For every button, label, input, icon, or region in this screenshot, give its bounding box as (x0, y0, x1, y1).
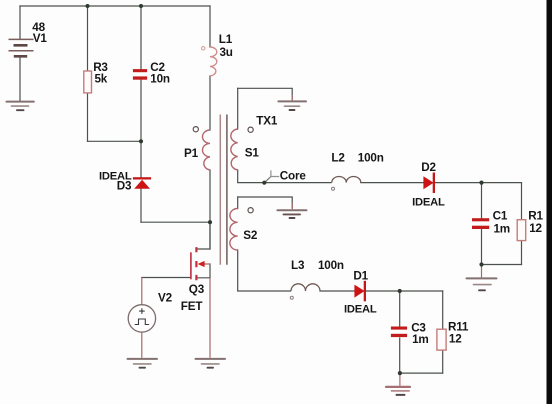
svg-text:L1: L1 (219, 33, 233, 46)
ground (Q3 source) (196, 359, 226, 368)
svg-text:100n: 100n (358, 152, 384, 165)
ground (C3 output) (386, 387, 410, 395)
svg-text:IDEAL: IDEAL (344, 304, 377, 316)
transformer TX1 core (219, 115, 221, 265)
svg-text:IDEAL: IDEAL (412, 197, 445, 209)
wire R3 top (87, 6, 89, 71)
node R3-C2-D3 (139, 139, 143, 143)
wire S2 top to ground (238, 197, 293, 208)
pin V2 top stub (141, 278, 143, 305)
ground (C1/R1 output) (467, 278, 497, 290)
svg-text:S1: S1 (245, 146, 260, 159)
pin dot P1 (193, 127, 198, 132)
wire R3-C2 bottom junction run (88, 140, 142, 142)
wire V2 gate run (142, 277, 191, 279)
svg-text:12: 12 (529, 222, 542, 235)
ground (S2 top) (277, 210, 306, 218)
wire S1 top vertical (237, 88, 239, 129)
diode D1 (354, 281, 366, 302)
node D1-C3 (398, 289, 402, 293)
svg-text:5k: 5k (95, 72, 108, 85)
ground (battery) (7, 102, 34, 111)
wire R3 bottom (87, 93, 89, 141)
wire S1 bottom (238, 170, 331, 183)
wire L3 to D1 (320, 290, 354, 292)
pin V2 bottom stub (141, 332, 143, 358)
wire R11 top (442, 291, 444, 329)
transistor Q3 FET (191, 247, 210, 280)
svg-text:TX1: TX1 (256, 115, 278, 128)
pin dot S1 (248, 127, 253, 132)
wire battery top (19, 6, 21, 39)
svg-text:C1: C1 (493, 210, 508, 223)
ground (V2) (128, 359, 158, 368)
svg-text:FET: FET (181, 300, 204, 313)
wire Q3 drain vertical (197, 222, 211, 249)
pin dot L1 (202, 47, 205, 50)
svg-text:Q3: Q3 (189, 283, 205, 296)
node Core tick (264, 170, 279, 182)
svg-text:V1: V1 (33, 32, 48, 45)
pin dot S2 (248, 208, 253, 213)
capacitor C1 (472, 218, 489, 229)
wire C2 top (140, 6, 142, 69)
svg-text:12: 12 (449, 332, 462, 345)
component pin stubs (reddish) (142, 95, 482, 386)
transformer winding P1 (202, 130, 210, 170)
ground (S1 top) (278, 101, 306, 110)
wire top rail (20, 5, 210, 7)
node C1-gnd (479, 262, 483, 266)
svg-text:S2: S2 (243, 229, 258, 242)
diode D2 (423, 173, 435, 194)
source V2 (128, 305, 155, 332)
node Core (262, 181, 266, 185)
wire Q3 source bend (197, 264, 211, 278)
svg-text:1m: 1m (412, 333, 429, 346)
transformer winding S2 (230, 209, 238, 251)
wire R11 bottom (442, 350, 444, 373)
node D2-C1 (479, 181, 483, 185)
wire S1 top to ground (238, 88, 293, 99)
svg-text:L3: L3 (291, 259, 305, 272)
pin C3 ground stub (399, 373, 401, 386)
capacitor C3 (391, 327, 407, 338)
svg-text:10n: 10n (150, 72, 170, 85)
pin dot L3 (290, 296, 293, 299)
wire R1 top (521, 183, 523, 220)
wire C3-R11 bottom run (400, 372, 443, 374)
wire C3 top (399, 291, 401, 327)
wire L1 top (209, 6, 211, 47)
wire C3 bottom (399, 338, 401, 373)
wire L1 to P1 (209, 76, 211, 130)
wire L2 to D2 (361, 182, 423, 184)
svg-text:L2: L2 (331, 152, 345, 165)
svg-text:1m: 1m (494, 223, 511, 236)
wire D3 to P1 (141, 221, 210, 223)
wire D2 to R1 (435, 182, 522, 184)
wire D3 top (140, 141, 142, 177)
svg-text:Core: Core (280, 170, 307, 183)
wire P1 bottom to drain (209, 170, 211, 249)
right black border strip (547, 0, 552, 404)
inductor L1 (210, 47, 217, 76)
svg-text:3u: 3u (220, 46, 233, 59)
wire C2 bottom (140, 80, 142, 141)
svg-text:D3: D3 (117, 179, 132, 192)
svg-text:R1: R1 (528, 210, 543, 223)
node rail-C2 (139, 4, 143, 8)
resistor R11 (437, 329, 446, 350)
wire S2 bottom (238, 250, 291, 291)
svg-text:D2: D2 (421, 161, 436, 174)
wire R1 bottom (521, 241, 523, 265)
node D3-P1-drain (208, 220, 212, 224)
svg-text:D1: D1 (353, 270, 368, 283)
wire D3 bottom (140, 189, 142, 222)
resistor R3 (84, 71, 92, 93)
inductor L3 (291, 284, 320, 291)
svg-text:P1: P1 (184, 147, 199, 160)
node C3-gnd (398, 371, 402, 375)
wire S2 top vertical (237, 197, 239, 209)
pin S2 ground stub (291, 203, 293, 209)
node rail-R3 (86, 4, 90, 8)
battery V1 (9, 39, 34, 56)
wire D1 to R11 (365, 290, 443, 292)
resistor R1 (517, 220, 526, 241)
pin S1 ground stub (291, 95, 293, 101)
wire C1-R1 bottom run (482, 264, 522, 266)
wire C1 bottom (481, 229, 483, 264)
svg-text:V2: V2 (158, 292, 173, 305)
pin dot L2 (332, 187, 335, 190)
pin Q3 source stub (209, 278, 211, 358)
inductor L2 (332, 177, 361, 183)
capacitor C2 (133, 69, 147, 80)
diode D3 (133, 177, 151, 189)
wire battery bottom to ground (19, 57, 21, 101)
wire C1 top (481, 183, 483, 218)
transformer winding S1 (231, 129, 238, 170)
pin C1 ground stub (481, 265, 483, 278)
svg-text:100n: 100n (318, 259, 344, 272)
